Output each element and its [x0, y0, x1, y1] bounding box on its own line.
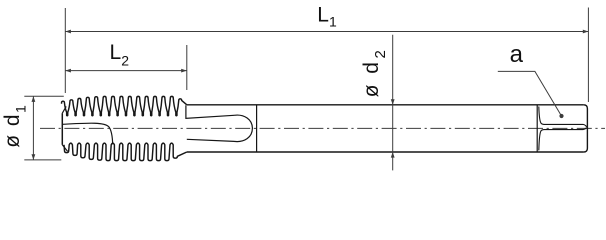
L1 extension line left: [64, 8, 66, 93]
d1 extension line bottom: [24, 159, 61, 161]
flute lower edge on neck: [187, 139, 234, 141]
shank bottom edge: [187, 151, 584, 153]
svg-text:a: a: [510, 41, 524, 68]
leader line for a: [498, 71, 562, 116]
svg-text:L2: L2: [110, 41, 130, 69]
thread band top: [62, 96, 187, 115]
leader dot: [559, 114, 563, 118]
square flat runout lower: [539, 127, 587, 150]
spiral point cutting edge: [63, 123, 113, 144]
square section boundary: [536, 105, 538, 152]
neck-shank boundary: [256, 105, 258, 152]
thread band bottom: [64, 143, 187, 160]
square flat runout upper: [539, 107, 587, 128]
flute rounded end: [234, 115, 252, 142]
L1 extension line right: [587, 8, 589, 103]
tap left point face: [61, 113, 63, 145]
d1 dimension line: [32, 96, 34, 160]
svg-text:ø d2: ø d2: [360, 48, 389, 98]
d2 dimension line: [392, 35, 394, 171]
L1 dimension line: [65, 31, 588, 33]
shank end face: [584, 105, 588, 152]
centerline (axis): [40, 127, 605, 129]
L2 extension line right: [186, 45, 188, 90]
shank top edge: [187, 104, 584, 106]
svg-text:L1: L1: [317, 4, 337, 30]
d1 extension line top: [24, 95, 64, 97]
L2 dimension line: [65, 70, 187, 72]
svg-text:ø d1: ø d1: [1, 104, 28, 148]
flute upper edge on neck: [186, 105, 234, 118]
chamfer edges at point: [62, 106, 67, 151]
